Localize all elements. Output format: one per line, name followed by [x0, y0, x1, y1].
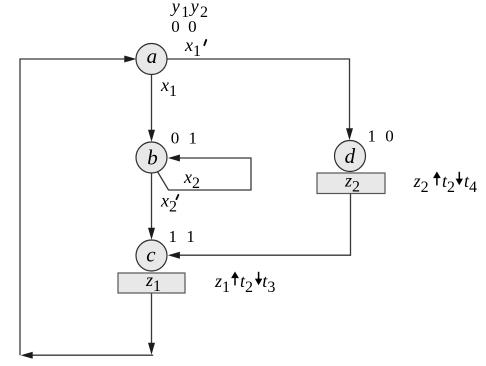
- svg-text:1: 1: [189, 129, 198, 148]
- svg-text:a: a: [147, 44, 158, 68]
- svg-text:c: c: [146, 243, 156, 267]
- svg-text:1: 1: [169, 227, 178, 246]
- svg-text:d: d: [345, 144, 356, 168]
- svg-text:b: b: [147, 145, 158, 169]
- svg-text:0: 0: [171, 17, 180, 36]
- svg-text:1: 1: [186, 227, 195, 246]
- svg-text:0: 0: [188, 17, 197, 36]
- svg-text:1: 1: [368, 127, 377, 146]
- svg-text:0: 0: [171, 129, 180, 148]
- svg-text:0: 0: [385, 127, 394, 146]
